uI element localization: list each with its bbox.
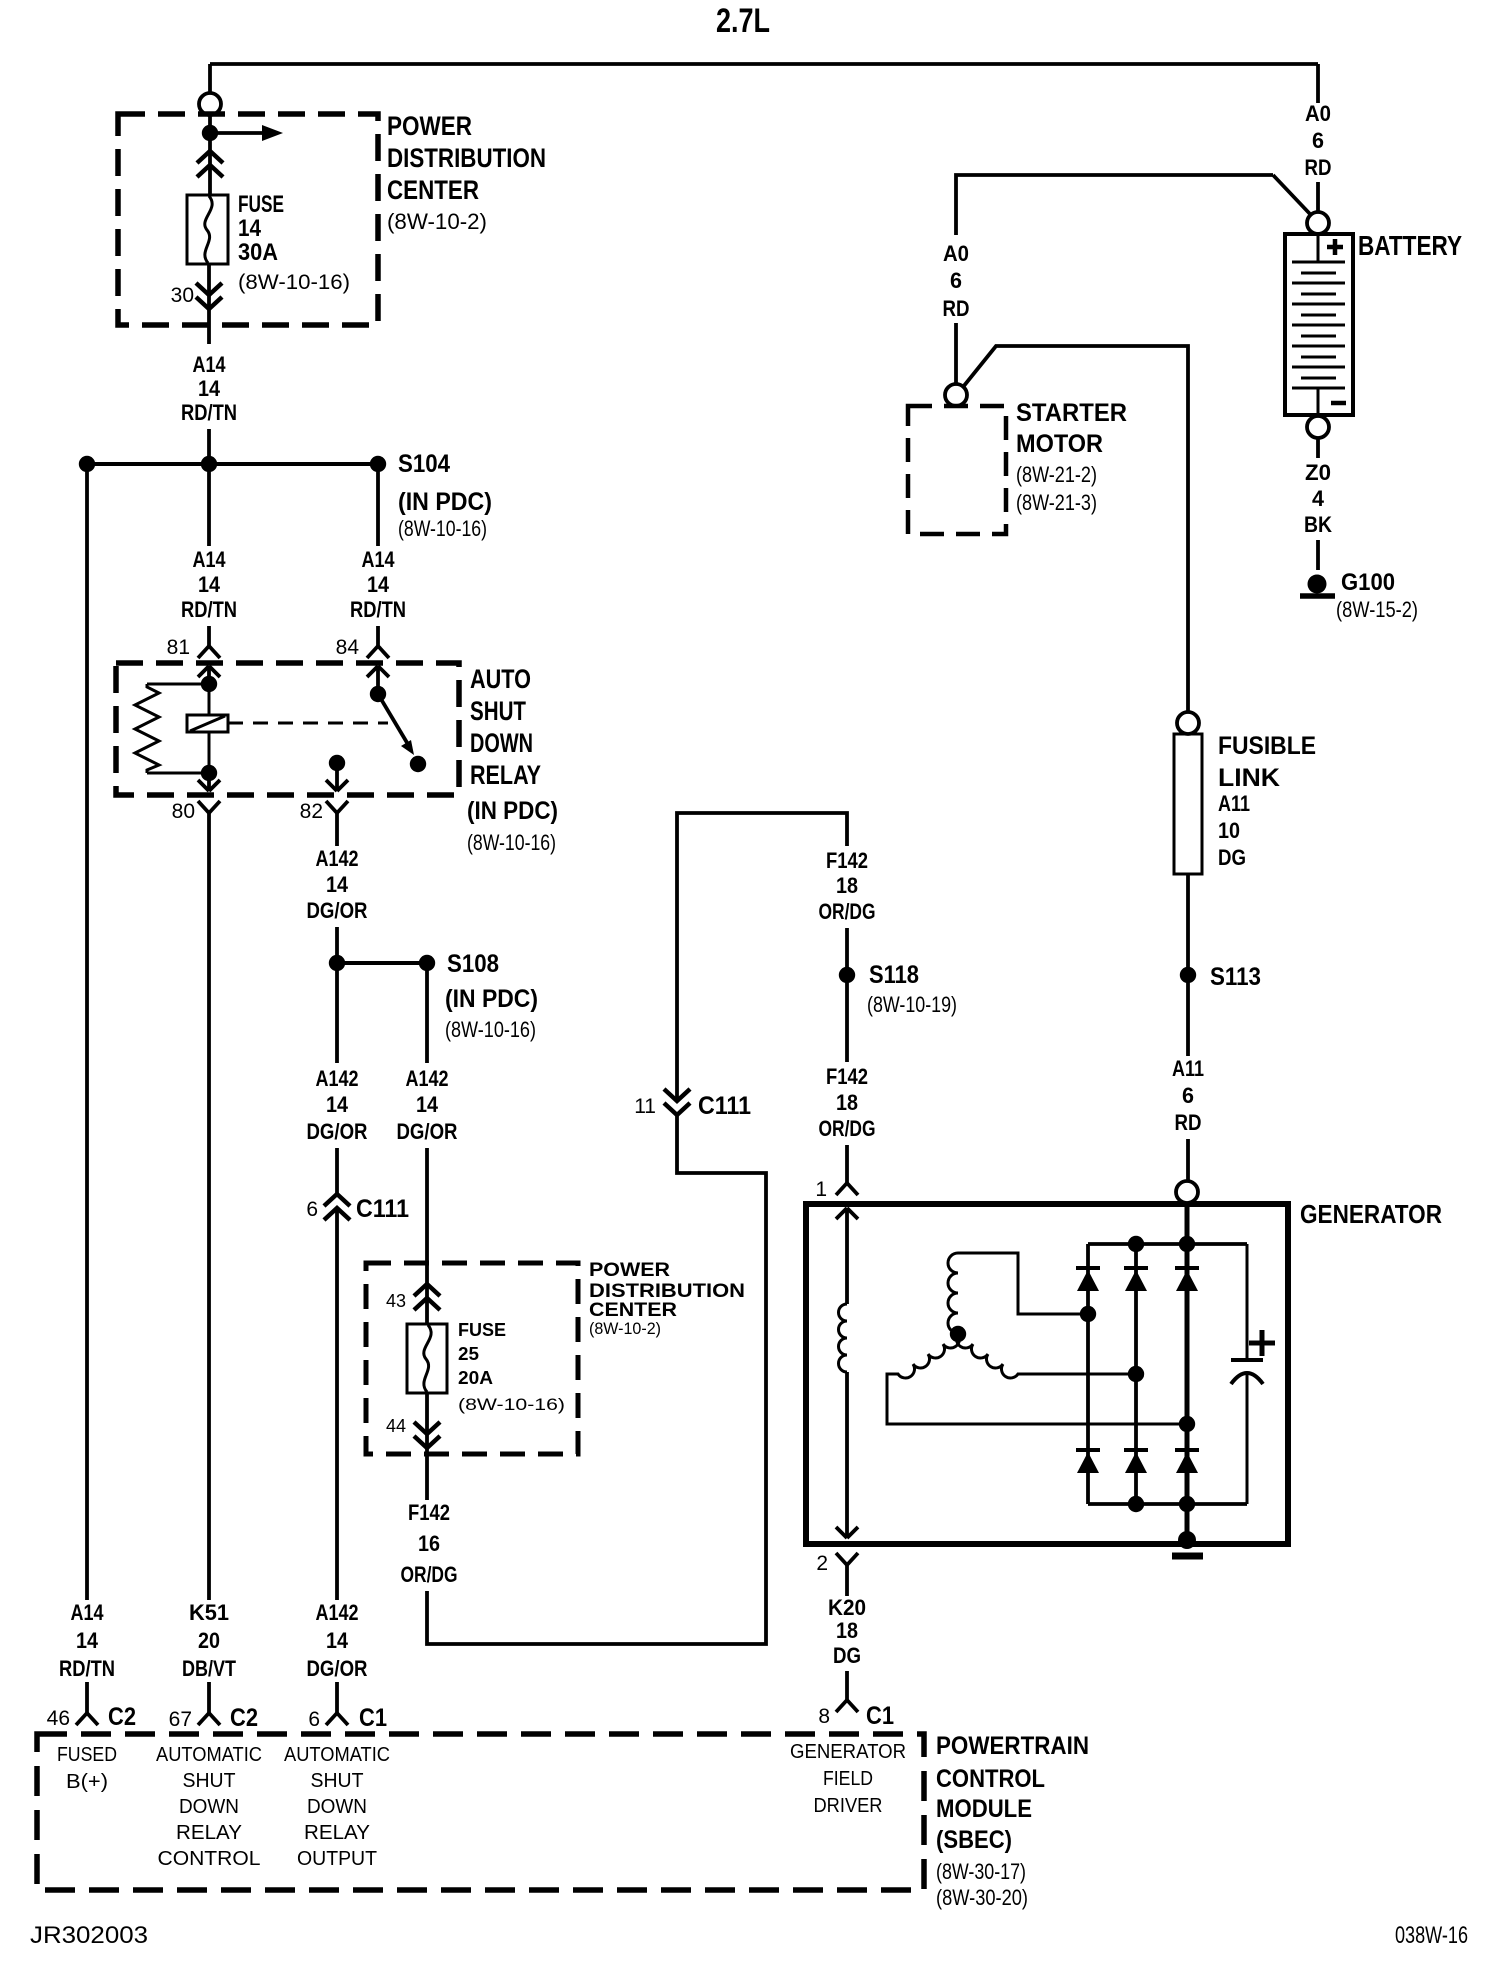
svg-text:GENERATOR: GENERATOR <box>790 1741 906 1763</box>
fuse 25 <box>407 1324 447 1393</box>
pin 6 connector <box>326 1713 348 1725</box>
svg-text:6: 6 <box>950 268 962 293</box>
svg-text:A14: A14 <box>193 547 227 572</box>
relay actuation dashed link <box>228 722 388 725</box>
node S113 <box>1180 967 1196 983</box>
wire F142 18 up and over to S118 <box>677 813 847 1100</box>
svg-text:DRIVER: DRIVER <box>814 1795 883 1817</box>
svg-text:(8W-15-2): (8W-15-2) <box>1336 597 1418 622</box>
svg-text:RD/TN: RD/TN <box>59 1656 115 1681</box>
PDC terminal circle <box>199 93 221 115</box>
svg-text:BK: BK <box>1304 512 1332 537</box>
svg-text:82: 82 <box>300 800 323 823</box>
svg-text:A14: A14 <box>71 1600 105 1625</box>
svg-text:A11: A11 <box>1218 791 1250 816</box>
pin 82 arrow to box edge <box>335 763 339 790</box>
svg-text:14: 14 <box>76 1628 99 1653</box>
node top bus dots <box>1128 1236 1144 1252</box>
svg-text:SHUT: SHUT <box>470 696 526 726</box>
svg-text:(8W-30-17): (8W-30-17) <box>936 1859 1026 1884</box>
chevron pair up (pin 43) <box>414 1284 440 1310</box>
wire into fuse <box>208 114 212 195</box>
capacitor lead bottom <box>1246 1374 1249 1504</box>
svg-text:6: 6 <box>1312 128 1324 153</box>
svg-text:25: 25 <box>458 1344 479 1364</box>
svg-text:1: 1 <box>815 1178 827 1201</box>
svg-text:C2: C2 <box>108 1703 136 1731</box>
battery negative terminal circle <box>1307 416 1329 438</box>
svg-text:14: 14 <box>326 1628 349 1653</box>
node S118 <box>839 967 855 983</box>
node stator center <box>950 1326 966 1342</box>
resistor (relay) <box>147 683 209 686</box>
svg-text:(IN PDC): (IN PDC) <box>467 797 558 825</box>
svg-text:A142: A142 <box>316 1066 359 1091</box>
svg-text:JR302003: JR302003 <box>30 1922 148 1949</box>
wire K20 <box>845 1565 849 1596</box>
node relay coil top <box>201 676 217 692</box>
svg-text:F142: F142 <box>826 848 868 873</box>
svg-text:S108: S108 <box>447 950 499 978</box>
svg-text:14: 14 <box>326 872 349 897</box>
svg-text:81: 81 <box>167 636 190 659</box>
svg-text:14: 14 <box>367 572 390 597</box>
svg-text:FUSE: FUSE <box>238 191 284 218</box>
pin 1 connector <box>836 1183 858 1195</box>
chevron pair down (pin 30) <box>196 283 222 309</box>
svg-text:DG/OR: DG/OR <box>307 1656 368 1681</box>
wire A14 middle leg to relay pin 81 <box>207 472 211 546</box>
wire top bus left drop <box>208 64 212 93</box>
rectifier vertical 3 / output <box>1185 1203 1190 1537</box>
svg-text:AUTOMATIC: AUTOMATIC <box>156 1744 262 1766</box>
svg-text:G100: G100 <box>1341 569 1395 596</box>
svg-text:FUSIBLE: FUSIBLE <box>1218 732 1316 760</box>
wire fuse out <box>207 264 211 344</box>
svg-text:(8W-10-16): (8W-10-16) <box>398 516 487 541</box>
svg-text:6: 6 <box>308 1708 320 1731</box>
svg-text:RELAY: RELAY <box>304 1822 370 1844</box>
pin 80 arrow to box edge <box>207 773 211 790</box>
svg-text:RD: RD <box>943 296 970 321</box>
auto shut down relay box <box>116 663 459 795</box>
svg-text:DG: DG <box>833 1643 861 1668</box>
svg-text:MODULE: MODULE <box>936 1795 1032 1823</box>
svg-text:(SBEC): (SBEC) <box>936 1826 1012 1854</box>
pin 8 connector <box>836 1700 858 1712</box>
svg-text:K51: K51 <box>189 1600 229 1625</box>
wire to splice S118 <box>845 928 849 967</box>
wire diagonal to battery terminal <box>1273 175 1310 214</box>
svg-text:OR/DG: OR/DG <box>401 1562 458 1587</box>
svg-text:A14: A14 <box>193 352 227 377</box>
svg-text:CENTER: CENTER <box>387 175 479 205</box>
svg-text:AUTOMATIC: AUTOMATIC <box>284 1744 390 1766</box>
svg-text:(8W-10-16): (8W-10-16) <box>458 1395 565 1414</box>
pin 82 connector below <box>326 801 348 813</box>
svg-text:14: 14 <box>238 215 262 242</box>
svg-text:RELAY: RELAY <box>176 1822 242 1844</box>
svg-text:18: 18 <box>836 873 858 898</box>
wire to splice S104 <box>207 429 211 456</box>
svg-text:14: 14 <box>326 1092 349 1117</box>
battery plus mark <box>1327 239 1343 255</box>
svg-text:OUTPUT: OUTPUT <box>297 1848 377 1870</box>
rectifier bottom bus <box>1088 1502 1247 1506</box>
wire S108 left leg <box>335 971 339 1063</box>
ground G100 <box>1308 575 1327 594</box>
pin 84 connector <box>367 646 389 658</box>
stator winding A lead <box>958 1253 1088 1314</box>
svg-text:RD: RD <box>1305 155 1332 180</box>
relay coil <box>208 684 211 773</box>
stator winding A <box>948 1253 958 1333</box>
svg-text:DG/OR: DG/OR <box>397 1119 458 1144</box>
wire A142 from pin 82 <box>335 813 339 846</box>
wire fusible link to S113 <box>1186 874 1190 967</box>
svg-text:FIELD: FIELD <box>823 1768 873 1790</box>
node switch pivot <box>370 686 386 702</box>
svg-text:8: 8 <box>818 1705 830 1728</box>
svg-text:16: 16 <box>418 1531 440 1556</box>
svg-text:(8W-10-16): (8W-10-16) <box>467 830 556 855</box>
svg-text:DOWN: DOWN <box>307 1796 367 1818</box>
svg-text:F142: F142 <box>826 1064 868 1089</box>
wire to splice S108 <box>335 927 339 956</box>
starter terminal circle <box>945 384 967 406</box>
pin 2 arrow at box edge <box>836 1527 858 1538</box>
pin 84 male arrow inside relay <box>367 666 389 677</box>
splice S104 tie line <box>87 462 378 466</box>
powertrain control module box <box>37 1734 924 1890</box>
diode D2 top <box>1124 1268 1148 1291</box>
node phase A <box>1080 1306 1096 1322</box>
fusible link terminal circle <box>1177 712 1199 734</box>
wire field to pin 2 <box>845 1372 849 1537</box>
diode D3 top <box>1175 1268 1199 1291</box>
svg-text:DISTRIBUTION: DISTRIBUTION <box>387 143 546 173</box>
svg-text:S104: S104 <box>398 450 450 478</box>
svg-text:80: 80 <box>172 800 195 823</box>
rectifier vertical 2 <box>1134 1244 1138 1504</box>
capacitor plates <box>1231 1358 1263 1362</box>
svg-text:30: 30 <box>171 284 194 307</box>
svg-text:RD/TN: RD/TN <box>181 597 237 622</box>
svg-text:43: 43 <box>386 1291 406 1311</box>
svg-text:F142: F142 <box>408 1500 450 1525</box>
svg-text:LINK: LINK <box>1218 764 1280 792</box>
wire battery to starter branch <box>956 175 1273 235</box>
svg-text:DOWN: DOWN <box>470 728 533 758</box>
svg-text:C1: C1 <box>359 1704 387 1732</box>
power distribution center box 1 <box>118 114 378 325</box>
splice S108 tie line <box>337 961 427 965</box>
stator winding C <box>956 1334 1136 1378</box>
battery <box>1285 234 1353 415</box>
arrow branch right <box>210 131 264 135</box>
pin 1 male arrow inside generator <box>836 1208 858 1219</box>
node S104 dots <box>79 456 95 472</box>
svg-text:(IN PDC): (IN PDC) <box>398 488 492 516</box>
svg-text:DG: DG <box>1218 845 1246 870</box>
svg-text:14: 14 <box>416 1092 439 1117</box>
wire A14 left leg (to PCM pin 46) <box>85 472 89 1600</box>
svg-text:DISTRIBUTION: DISTRIBUTION <box>589 1281 745 1302</box>
generator case ground <box>1179 1532 1195 1548</box>
svg-text:FUSE: FUSE <box>458 1320 506 1340</box>
svg-text:6: 6 <box>306 1198 318 1221</box>
svg-text:(8W-21-2): (8W-21-2) <box>1016 462 1097 487</box>
svg-text:Z0: Z0 <box>1305 460 1331 485</box>
battery minus mark <box>1331 401 1346 406</box>
svg-text:SHUT: SHUT <box>311 1770 364 1792</box>
diode D5 bottom <box>1124 1450 1148 1473</box>
svg-text:4: 4 <box>1312 486 1325 511</box>
svg-text:11: 11 <box>634 1095 656 1118</box>
node S108 dots <box>329 955 345 971</box>
svg-text:A142: A142 <box>406 1066 449 1091</box>
generator output terminal circle <box>1176 1181 1198 1203</box>
svg-text:POWER: POWER <box>589 1260 670 1281</box>
svg-text:6: 6 <box>1182 1083 1194 1108</box>
diode D1 top <box>1076 1268 1100 1291</box>
svg-text:A0: A0 <box>943 241 969 266</box>
svg-text:(8W-10-19): (8W-10-19) <box>867 992 957 1017</box>
svg-text:RD/TN: RD/TN <box>181 400 237 425</box>
svg-text:RD/TN: RD/TN <box>350 597 406 622</box>
wire Z0 <box>1316 438 1320 458</box>
svg-text:GENERATOR: GENERATOR <box>1300 1199 1442 1229</box>
svg-text:14: 14 <box>198 572 221 597</box>
svg-text:C1: C1 <box>866 1702 894 1730</box>
svg-text:RD: RD <box>1175 1110 1202 1135</box>
svg-text:(8W-10-16): (8W-10-16) <box>445 1017 536 1042</box>
wire top bus <box>210 62 1318 66</box>
svg-text:DG/OR: DG/OR <box>307 898 368 923</box>
pin 81 male arrow inside relay <box>198 666 220 677</box>
svg-text:18: 18 <box>836 1090 858 1115</box>
capacitor lead top <box>1246 1244 1249 1358</box>
svg-text:20: 20 <box>198 1628 220 1653</box>
svg-text:A142: A142 <box>316 1600 359 1625</box>
svg-text:CENTER: CENTER <box>589 1300 677 1321</box>
svg-text:MOTOR: MOTOR <box>1016 430 1103 458</box>
wire to generator pin 1 <box>845 1145 849 1183</box>
svg-text:STARTER: STARTER <box>1016 399 1127 427</box>
svg-text:CONTROL: CONTROL <box>158 1848 261 1870</box>
node relay coil bottom <box>201 765 217 781</box>
starter motor box <box>908 406 1006 534</box>
svg-text:10: 10 <box>1218 818 1240 843</box>
node phase C <box>1128 1366 1144 1382</box>
svg-text:CONTROL: CONTROL <box>936 1765 1045 1793</box>
node pin 82 dot <box>329 755 345 771</box>
rectifier top bus <box>1088 1242 1247 1246</box>
svg-text:30A: 30A <box>238 239 278 266</box>
svg-text:(IN PDC): (IN PDC) <box>445 985 538 1013</box>
node bottom bus dots <box>1128 1496 1144 1512</box>
chevron pair down (pin 44) <box>414 1422 440 1448</box>
svg-text:20A: 20A <box>458 1368 493 1388</box>
pin 81 connector <box>198 646 220 658</box>
svg-text:(8W-10-2): (8W-10-2) <box>589 1319 661 1338</box>
svg-text:AUTO: AUTO <box>470 664 531 694</box>
svg-text:038W-16: 038W-16 <box>1395 1922 1468 1949</box>
svg-text:C111: C111 <box>698 1092 751 1120</box>
svg-text:2.7L: 2.7L <box>716 2 770 40</box>
node switch contact <box>410 756 426 772</box>
generator box <box>806 1204 1288 1544</box>
svg-text:C2: C2 <box>230 1704 258 1732</box>
node dot feed <box>202 125 218 141</box>
svg-text:RELAY: RELAY <box>470 760 541 790</box>
svg-text:DG/OR: DG/OR <box>307 1119 368 1144</box>
svg-text:44: 44 <box>386 1416 406 1436</box>
diode D4 bottom <box>1076 1450 1100 1473</box>
svg-text:C111: C111 <box>356 1195 409 1223</box>
rectifier vertical 1 <box>1086 1244 1090 1504</box>
svg-text:67: 67 <box>169 1708 192 1731</box>
wire K51 from pin 80 to PCM pin 67 <box>207 813 211 1600</box>
svg-text:(8W-21-3): (8W-21-3) <box>1016 490 1097 515</box>
svg-text:A11: A11 <box>1172 1056 1204 1081</box>
svg-text:OR/DG: OR/DG <box>819 1116 876 1141</box>
pin 67 connector <box>198 1713 220 1725</box>
svg-text:2: 2 <box>816 1552 828 1575</box>
svg-text:A0: A0 <box>1305 101 1331 126</box>
svg-text:S113: S113 <box>1210 963 1261 991</box>
svg-text:(8W-10-16): (8W-10-16) <box>238 271 350 294</box>
field winding coil <box>839 1304 848 1372</box>
wire starter to generator branch <box>963 346 1188 712</box>
svg-text:(8W-10-2): (8W-10-2) <box>387 209 487 234</box>
svg-text:14: 14 <box>198 376 221 401</box>
svg-text:(8W-30-20): (8W-30-20) <box>936 1885 1028 1910</box>
wire fuse 25 out <box>425 1393 429 1500</box>
relay switch arm <box>378 694 409 746</box>
svg-text:FUSED: FUSED <box>57 1744 117 1766</box>
node phase B <box>1179 1416 1195 1432</box>
svg-text:K20: K20 <box>828 1595 866 1620</box>
power distribution center box 2 <box>366 1263 578 1454</box>
svg-text:POWER: POWER <box>387 111 472 141</box>
svg-text:SHUT: SHUT <box>183 1770 236 1792</box>
svg-text:A142: A142 <box>316 846 359 871</box>
wire F142 routing to C111 <box>427 1115 766 1644</box>
svg-text:18: 18 <box>836 1618 858 1643</box>
wire below S118 <box>845 983 849 1062</box>
svg-text:BATTERY: BATTERY <box>1358 230 1462 261</box>
svg-text:46: 46 <box>47 1707 70 1730</box>
wire S108 right leg <box>425 971 429 1063</box>
svg-text:S118: S118 <box>869 961 919 989</box>
svg-text:A14: A14 <box>362 547 396 572</box>
svg-text:POWERTRAIN: POWERTRAIN <box>936 1732 1089 1760</box>
stator winding B <box>887 1334 1187 1424</box>
fuse 14 <box>187 195 228 264</box>
wire A142 to PCM pin 6 <box>335 1209 339 1600</box>
diode D6 bottom <box>1175 1450 1199 1473</box>
svg-text:DB/VT: DB/VT <box>182 1656 236 1681</box>
svg-text:B(+): B(+) <box>66 1771 108 1793</box>
connector C111 pin 11 <box>664 1089 690 1115</box>
pin 46 connector <box>76 1713 98 1725</box>
capacitor polarity plus <box>1249 1330 1275 1356</box>
battery positive terminal circle <box>1307 212 1329 234</box>
fusible link <box>1174 734 1202 874</box>
svg-text:84: 84 <box>336 636 360 659</box>
pin 80 connector below <box>198 801 220 813</box>
wire A14 right leg to relay pin 84 <box>376 472 380 546</box>
pin 2 connector below <box>836 1553 858 1565</box>
chevron pair up (fuse feed) <box>197 151 223 177</box>
wire below S113 <box>1186 983 1190 1056</box>
svg-text:DOWN: DOWN <box>179 1796 239 1818</box>
svg-text:OR/DG: OR/DG <box>819 899 876 924</box>
wire A0 top right drop <box>1316 64 1320 103</box>
